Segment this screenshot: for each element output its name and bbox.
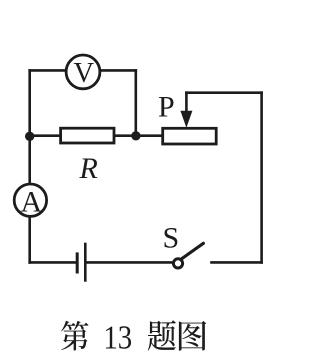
rheostat P slider arrowhead: [180, 111, 192, 128]
wire top-left horizontal (voltmeter branch top): [30, 69, 136, 72]
svg-text:A: A: [20, 186, 42, 219]
switch S lever: [182, 243, 204, 258]
wire bottom horizontal left segment to battery: [30, 261, 76, 264]
wire switch to right corner segment: [212, 261, 262, 264]
node junction dot left (A): [25, 132, 34, 141]
wire top-right horizontal (slider feed): [186, 91, 261, 94]
svg-text:R: R: [79, 152, 98, 185]
svg-text:V: V: [74, 58, 95, 89]
voltmeter V1 circle: [66, 55, 100, 89]
rheostat P body: [163, 128, 217, 144]
wire middle horizontal through resistor R: [30, 134, 163, 137]
switch S pivot circle: [173, 259, 182, 268]
caption character 图: [179, 321, 206, 351]
caption character 第: [61, 321, 88, 351]
ammeter A1 circle: [14, 184, 46, 216]
svg-text:P: P: [158, 91, 175, 124]
wire battery to switch segment: [86, 261, 172, 264]
wire rheostat slider stem: [185, 93, 188, 112]
wire left vertical (main left branch): [28, 70, 31, 262]
node junction dot right (B): [131, 131, 140, 140]
battery cell positive long plate: [84, 243, 87, 282]
battery cell negative short plate: [76, 252, 79, 273]
wire right vertical of voltmeter loop: [135, 70, 138, 135]
caption number 13: [103, 318, 132, 353]
svg-text:S: S: [163, 221, 180, 254]
caption character 题: [148, 320, 176, 350]
wire right vertical (from rheostat slider loop): [260, 93, 263, 263]
resistor R body: [61, 128, 114, 143]
svg-text:13: 13: [103, 318, 132, 353]
